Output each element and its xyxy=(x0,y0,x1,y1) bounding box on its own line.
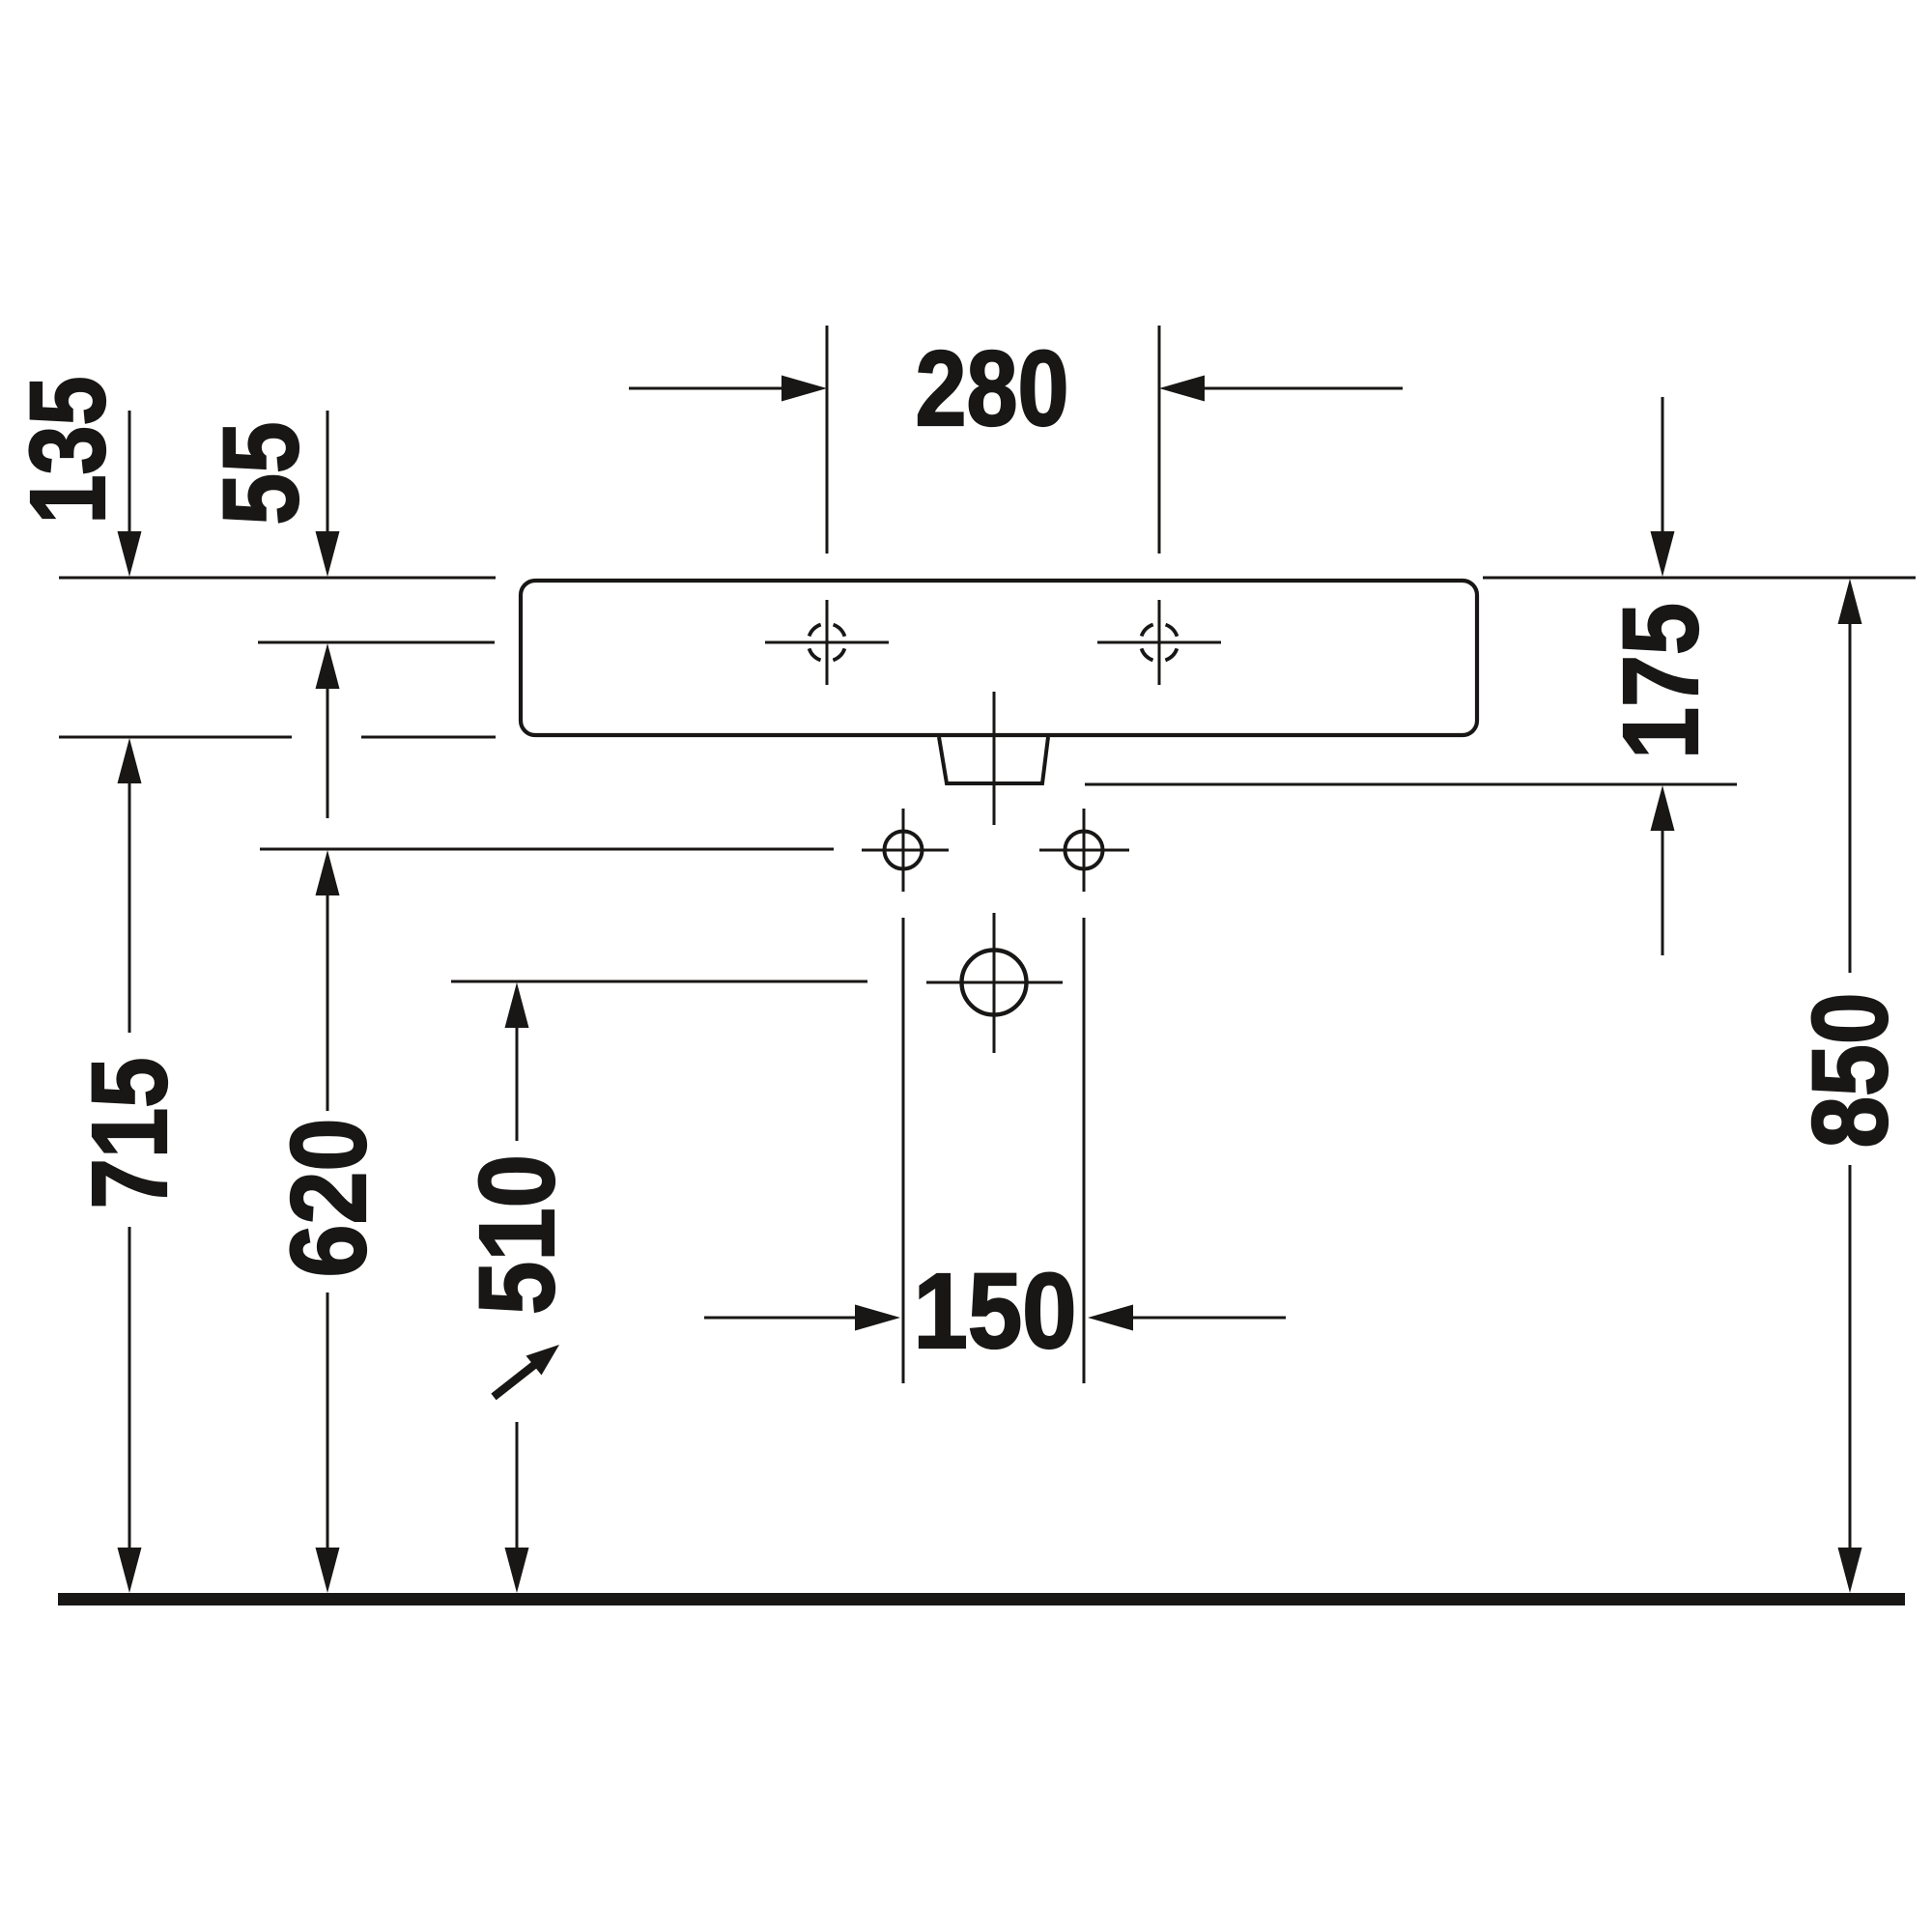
extension line: drain bottom right xyxy=(1085,783,1737,786)
dimension 850 lower shaft and floor arrow xyxy=(1838,1165,1862,1593)
dimension 175 top arrow xyxy=(1651,397,1675,577)
dimension 850 top arrow xyxy=(1838,579,1862,973)
drain center line xyxy=(993,692,996,825)
extension line: basin bottom left (segment 1) xyxy=(59,736,292,739)
svg-text:715: 715 xyxy=(71,1058,189,1209)
extension line: basin bottom left (segment 2) xyxy=(361,736,496,739)
extension line: mounting holes axis left xyxy=(260,848,834,851)
floor line xyxy=(58,1593,1905,1605)
svg-text:280: 280 xyxy=(916,329,1069,448)
extension line: faucet right vertical xyxy=(1158,326,1161,554)
svg-text:510: 510 xyxy=(458,1154,577,1315)
mounting hole right (circle with crosshair) xyxy=(1039,809,1129,892)
extension line: waste hole axis left xyxy=(451,980,867,983)
extension line: hole 150 left vertical xyxy=(902,918,905,1383)
svg-text:620: 620 xyxy=(270,1119,388,1278)
dimension 280 right arrow xyxy=(1159,376,1403,402)
dimension 280 left arrow xyxy=(629,376,827,402)
extension line: hole 150 right vertical xyxy=(1083,918,1086,1383)
extension line: basin top right xyxy=(1483,577,1916,580)
basin outline xyxy=(521,581,1477,735)
svg-text:850: 850 xyxy=(1791,993,1910,1149)
water inlet direction arrow xyxy=(494,1345,559,1397)
faucet hole left (dashed circle with crosshair) xyxy=(765,600,889,685)
dimension 715 lower shaft and floor arrow xyxy=(118,1227,142,1593)
dimension 150 right arrow xyxy=(1088,1305,1286,1331)
waste hole (large circle with crosshair) xyxy=(926,913,1063,1053)
extension line: faucet left vertical xyxy=(826,326,829,554)
mounting hole left (circle with crosshair) xyxy=(862,809,949,892)
dimension 175 bottom arrow with tail xyxy=(1651,785,1675,955)
faucet hole right (dashed circle with crosshair) xyxy=(1097,600,1221,685)
dimension 150 left arrow xyxy=(704,1305,900,1331)
svg-text:55: 55 xyxy=(202,422,321,526)
svg-text:175: 175 xyxy=(1602,603,1720,759)
extension line: basin top left xyxy=(59,577,496,580)
dimension 55 top arrow xyxy=(316,411,340,577)
dimension 135/715 shared up arrow xyxy=(118,738,142,1033)
dimension 135 top arrow xyxy=(118,411,142,577)
extension line: 55 target xyxy=(258,641,495,644)
svg-text:135: 135 xyxy=(9,377,128,525)
dimension 620 lower shaft and floor arrow xyxy=(316,1293,340,1593)
drain outlet trapezoid xyxy=(939,737,1048,783)
dimension 510 up arrow xyxy=(505,982,529,1141)
dimension 55 bottom arrow with tail xyxy=(316,643,340,818)
svg-text:150: 150 xyxy=(914,1252,1077,1371)
dimension 620 up arrow xyxy=(316,850,340,1111)
dimension 510 lower shaft and floor arrow xyxy=(505,1422,529,1593)
